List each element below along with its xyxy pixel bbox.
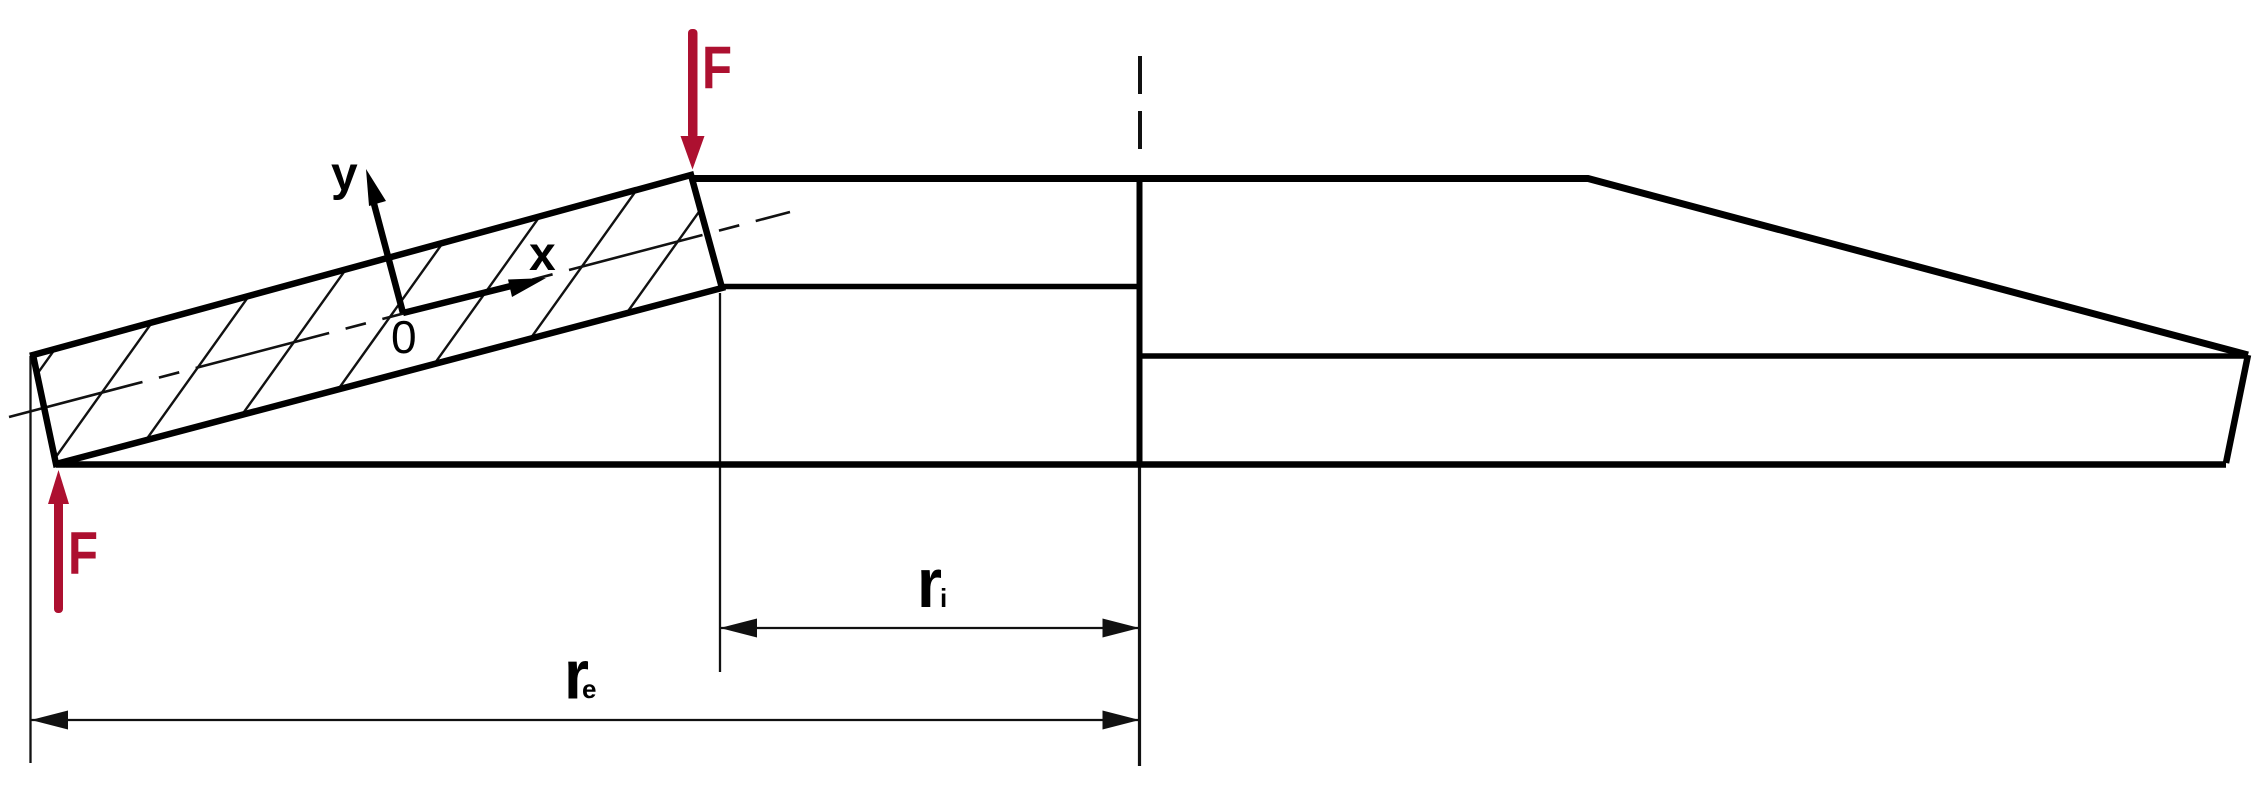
svg-text:e: e	[582, 674, 596, 704]
svg-text:r: r	[917, 544, 942, 622]
svg-text:i: i	[940, 583, 947, 613]
svg-text:y: y	[331, 148, 358, 201]
svg-text:F: F	[68, 520, 98, 587]
svg-text:x: x	[529, 228, 556, 281]
svg-text:0: 0	[391, 311, 417, 363]
svg-text:F: F	[702, 34, 732, 101]
